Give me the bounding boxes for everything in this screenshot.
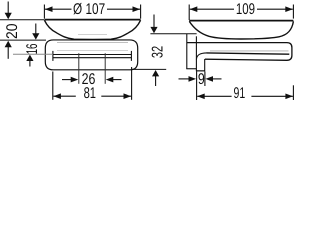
dim 20 top lead [7, 2, 9, 14]
bracket slot upper line [53, 54, 131, 56]
bracket slot right end cap [130, 51, 132, 61]
wall plate front edge [195, 36, 197, 70]
svg-text:81: 81 [84, 85, 96, 102]
svg-text:109: 109 [236, 1, 255, 18]
bracket faint top edge [57, 42, 128, 44]
arrowhead 91 right [285, 94, 293, 100]
wall plate top / 32 top extension [150, 33, 196, 35]
label 81 [76, 87, 102, 99]
bracket faint mid edge [57, 49, 128, 51]
extension line 81 right [131, 67, 133, 100]
extension line right of Ø107 [140, 5, 142, 19]
arrowhead 20 bottom (up) [5, 41, 12, 47]
extension line 81 left [52, 72, 54, 100]
arrowhead 20 top (down) [5, 13, 12, 19]
dim 32 bottom lead [155, 76, 157, 86]
bracket slot lower line [53, 57, 131, 59]
arm top + front edge [187, 43, 292, 61]
label 91 [232, 87, 252, 99]
svg-text:32: 32 [150, 46, 167, 58]
arm underside inner line [207, 53, 290, 54]
label Ø 107 [72, 2, 108, 15]
extension line 9 right [204, 72, 206, 87]
dish inner bottom faint line [78, 34, 107, 36]
extension line 16 bottom (gray) [13, 53, 53, 55]
arrowhead 81 right [124, 93, 132, 99]
arrowhead 9 left [189, 76, 197, 82]
arrowhead 81 left [53, 93, 61, 99]
arrowhead 109 right [285, 6, 293, 12]
dimension line 91 [197, 95, 293, 97]
label 20 (rotated) [4, 23, 21, 39]
bracket slot left end cap [52, 51, 54, 61]
arrowhead 91 left [197, 94, 205, 100]
arm underside faint line [210, 50, 289, 52]
label 9 [198, 71, 205, 88]
arrowhead 32 top (down) [150, 27, 157, 33]
dimension 26 left lead [62, 79, 72, 81]
arrowhead 16 bottom (up) [26, 55, 33, 61]
extension line left of Ø107 [43, 5, 45, 19]
dim 16 bottom lead [29, 59, 31, 66]
hook outer edge [204, 59, 206, 71]
arrowhead 109 left [190, 6, 198, 12]
arrowhead 26 left [71, 77, 79, 83]
wall plate left edge [186, 34, 188, 69]
arrowhead Ø107 right [133, 6, 141, 12]
dim 9 left lead [179, 78, 190, 80]
holder bracket outline (rounded rect) [45, 40, 137, 70]
svg-text:16: 16 [24, 44, 41, 55]
dim 9 right lead [213, 78, 222, 80]
arm fillet into underside [196, 53, 206, 60]
extension line 109 left [188, 5, 190, 21]
arrowhead Ø107 left [45, 6, 53, 12]
dim 16 top lead [35, 24, 37, 34]
extension line 20/16 shared (dish bottom level) [0, 39, 46, 41]
label 26 [82, 71, 96, 88]
dimension line 81 [53, 95, 131, 97]
extension line 32 bottom [132, 68, 167, 70]
mount line 26 left [78, 53, 80, 84]
extension line 9 left / 91 left [196, 72, 198, 101]
dim 20 bottom lead [7, 47, 9, 59]
dish bowl underside (front view) [44, 20, 140, 39]
label 32 (rotated) [150, 46, 167, 58]
wall plate foot [186, 68, 196, 70]
dish underside (side view) [189, 21, 293, 39]
mount line 26 right [104, 53, 106, 84]
hook bottom [196, 70, 205, 72]
dimension 26 right lead [112, 79, 121, 81]
svg-text:9: 9 [198, 71, 205, 88]
dish rim (front view) [44, 19, 140, 21]
label 109 [234, 2, 257, 15]
arrowhead 26 right [106, 77, 114, 83]
arrowhead 9 right [205, 76, 213, 82]
svg-text:Ø 107: Ø 107 [73, 1, 105, 18]
dish rim (side view) [189, 20, 293, 22]
extension line 91 right [292, 85, 294, 100]
dimension line 109 [190, 8, 293, 10]
svg-text:91: 91 [234, 85, 246, 102]
dim 32 top lead [153, 15, 155, 28]
dimension line Ø107 [45, 8, 140, 10]
label 16 (rotated) [24, 44, 41, 55]
svg-text:20: 20 [4, 23, 21, 39]
extension line 20 top (rim level) [0, 19, 44, 21]
arrowhead 16 top (down) [32, 33, 39, 39]
extension line 109 right [292, 5, 294, 19]
arrowhead 32 bottom (up) [152, 70, 159, 76]
